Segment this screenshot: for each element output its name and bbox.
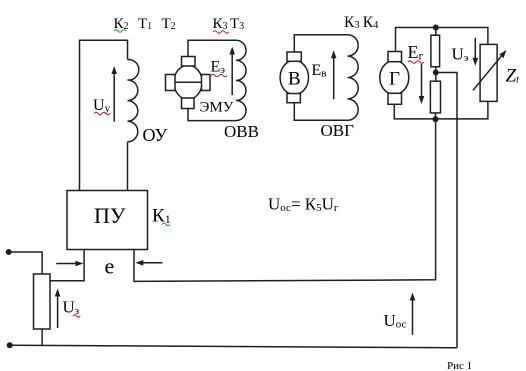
PU right input wire and feedback line xyxy=(134,119,436,281)
OU right lead down to PU xyxy=(127,142,129,191)
V brush top xyxy=(287,52,301,61)
label Uoc xyxy=(384,311,407,331)
R2 bottom lead xyxy=(435,113,437,119)
label Ue xyxy=(452,45,469,65)
green squiggle under K2 xyxy=(114,30,126,33)
svg-text:ЭМУ: ЭМУ xyxy=(200,100,234,116)
green squiggle under K1 xyxy=(162,223,170,226)
label Ee xyxy=(211,59,226,77)
label Uy xyxy=(93,97,111,115)
svg-text:Uос= К5Uг: Uос= К5Uг xyxy=(268,195,339,215)
Zt diagonal arrow xyxy=(473,50,506,90)
svg-text:Г: Г xyxy=(389,69,400,90)
label OVG xyxy=(321,121,355,140)
junction dot top xyxy=(433,25,439,31)
Uy arrow xyxy=(111,66,117,122)
input terminal dot top xyxy=(6,249,12,255)
OVG coil bumps xyxy=(348,35,359,121)
V exciter machine circle xyxy=(280,60,308,94)
resistor R1 xyxy=(431,35,440,67)
V loop bottom wire xyxy=(294,103,347,121)
EMU brush bottom xyxy=(182,98,195,109)
load Zt rectangle xyxy=(480,44,497,101)
red squiggle under K3 xyxy=(213,31,229,34)
EMU loop bottom wire xyxy=(188,109,236,121)
label T2 xyxy=(162,16,176,32)
label PU xyxy=(94,203,126,228)
PU left input wire xyxy=(50,250,84,281)
svg-text:В: В xyxy=(288,69,301,90)
G bottom wire xyxy=(394,101,488,119)
label Zt xyxy=(506,66,520,87)
input terminal dot bottom xyxy=(7,342,13,348)
R1 to tap lead xyxy=(435,67,437,81)
EMU brush left xyxy=(166,75,176,91)
red squiggle under Uz xyxy=(73,315,80,318)
G top wire xyxy=(396,28,488,52)
label Ev xyxy=(312,62,327,80)
potentiometer Uz xyxy=(34,274,51,329)
OU winding outline (control winding block) xyxy=(80,40,128,190)
EMU chord line xyxy=(173,81,203,83)
left input arrow xyxy=(56,261,83,267)
EMU brush right xyxy=(202,75,211,91)
Uoc arrow xyxy=(410,293,416,335)
junction dot bottom xyxy=(433,116,439,122)
label K1 xyxy=(152,206,171,227)
label T1 xyxy=(138,16,152,32)
Eg down arrow xyxy=(419,64,425,104)
svg-text:ОВВ: ОВВ xyxy=(224,122,259,141)
caption Ris 1 xyxy=(447,360,472,371)
bottom wire xyxy=(10,345,457,348)
label K3 K4 xyxy=(344,14,379,31)
label K2 xyxy=(114,16,129,32)
G brush bottom xyxy=(388,93,402,104)
label K3 T3 xyxy=(213,16,245,32)
feedback tap wire xyxy=(436,73,457,348)
label Uz xyxy=(63,298,80,318)
label OU xyxy=(143,125,168,145)
label Eg xyxy=(408,42,424,63)
svg-text:ОВГ: ОВГ xyxy=(321,121,355,140)
G generator machine circle xyxy=(380,61,409,95)
red squiggle under Uy xyxy=(94,112,110,115)
divider top lead xyxy=(435,28,437,36)
label e xyxy=(105,254,115,279)
PU amplifier block xyxy=(67,191,148,250)
svg-text:ОУ: ОУ xyxy=(143,125,168,145)
Ev arrow xyxy=(331,50,337,99)
right input arrow xyxy=(135,260,162,266)
Ee arrow xyxy=(229,47,235,96)
OU coil bumps xyxy=(128,59,139,141)
formula Uoc = K5Ug xyxy=(268,195,339,215)
V brush bottom xyxy=(287,94,300,103)
svg-text:ПУ: ПУ xyxy=(94,203,126,228)
OVV coil bumps xyxy=(236,40,246,120)
red squiggle under Eg xyxy=(408,61,424,64)
pot bottom lead xyxy=(41,329,43,345)
label G xyxy=(389,69,400,90)
junction dot tap xyxy=(433,70,439,76)
G brush top xyxy=(388,52,402,62)
label EMU xyxy=(200,100,234,116)
Ue down arrow xyxy=(473,38,479,66)
V loop top wire xyxy=(294,35,347,52)
svg-text:е: е xyxy=(105,254,115,279)
resistor R2 xyxy=(430,81,440,113)
label OVV xyxy=(224,122,259,141)
svg-text:Рис 1: Рис 1 xyxy=(447,360,472,371)
input top wire xyxy=(9,252,42,274)
EMU excitation loop wire xyxy=(188,40,236,56)
Uz arrow xyxy=(55,289,61,329)
red squiggle under Ee xyxy=(211,74,227,77)
EMU machine circle xyxy=(174,65,202,99)
EMU brush top xyxy=(182,57,196,67)
label V xyxy=(288,69,301,90)
